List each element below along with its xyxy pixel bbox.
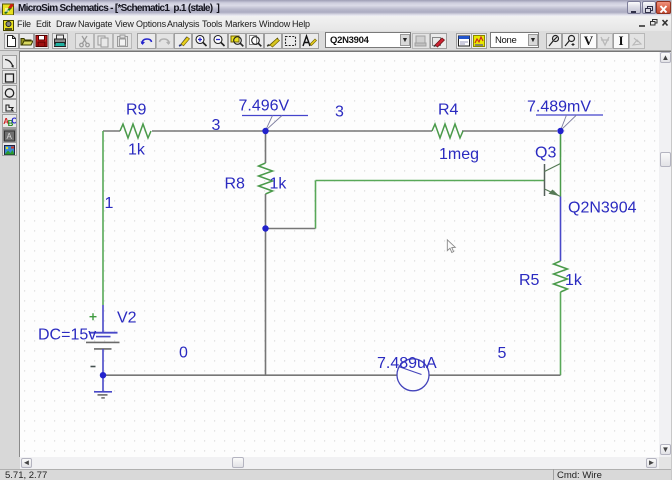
wire base xyxy=(316,180,545,182)
mouse cursor xyxy=(447,240,455,253)
node collector junction xyxy=(557,128,563,134)
battery V2 xyxy=(86,333,120,375)
svg-text:Q2N3904: Q2N3904 xyxy=(568,200,637,217)
svg-text:R5: R5 xyxy=(519,272,540,289)
status bar xyxy=(0,469,672,480)
resistor R5 xyxy=(554,261,568,292)
current probe xyxy=(397,359,429,391)
svg-text:R8: R8 xyxy=(225,176,246,193)
svg-text:A: A xyxy=(7,132,13,141)
wire left vertical xyxy=(102,131,104,305)
svg-text:7.489uA: 7.489uA xyxy=(377,355,437,372)
wire node4 branch vertical xyxy=(315,181,317,229)
svg-text:R9: R9 xyxy=(126,102,147,119)
plus sign xyxy=(90,313,97,320)
wire R5 bottom lead xyxy=(560,292,562,375)
title bar xyxy=(0,0,672,16)
svg-text:3: 3 xyxy=(335,104,344,121)
node 0 junction xyxy=(100,372,106,378)
svg-text:1k: 1k xyxy=(128,142,146,159)
transistor Q3 xyxy=(545,157,561,197)
ground xyxy=(94,377,112,398)
wire R8 top lead xyxy=(265,133,267,163)
horizontal scrollbar xyxy=(20,457,659,469)
svg-text:1k: 1k xyxy=(565,272,583,289)
resistor R9 xyxy=(120,124,151,138)
wire R8 bottom lead xyxy=(265,194,267,375)
wire node4 branch horizontal xyxy=(266,228,316,230)
resistor R4 xyxy=(432,124,463,138)
mdi child buttons xyxy=(636,17,672,30)
svg-text:7.489mV: 7.489mV xyxy=(527,99,591,116)
node base-R8 junction xyxy=(262,225,268,231)
toolbar xyxy=(0,31,672,51)
node 3 junction xyxy=(262,128,268,134)
wire collector lead xyxy=(560,133,562,157)
svg-text:5: 5 xyxy=(498,345,507,362)
wire bottom net 0 xyxy=(103,374,561,376)
vertical scrollbar xyxy=(659,51,671,457)
svg-text:7.496V: 7.496V xyxy=(239,98,290,115)
svg-text:1meg: 1meg xyxy=(439,146,479,163)
svg-text:1k: 1k xyxy=(270,176,288,193)
wire emitter lead xyxy=(560,197,562,262)
left palette xyxy=(0,51,20,457)
svg-text:V2: V2 xyxy=(117,310,137,327)
svg-text:3: 3 xyxy=(212,117,221,134)
minus sign xyxy=(91,366,96,368)
menu bar xyxy=(0,16,672,31)
svg-text:1: 1 xyxy=(105,195,114,212)
svg-text:0: 0 xyxy=(179,345,188,362)
resistor R8 xyxy=(259,163,273,194)
bias callout collector xyxy=(536,115,603,131)
bias callout node 3 xyxy=(242,116,308,131)
svg-text:C: C xyxy=(11,117,16,126)
svg-text:Q3: Q3 xyxy=(535,145,556,162)
wire battery top lead xyxy=(102,305,104,332)
wire top horizontal net 3 xyxy=(103,130,557,132)
svg-text:DC=15v: DC=15v xyxy=(38,327,96,344)
svg-text:R4: R4 xyxy=(438,102,459,119)
